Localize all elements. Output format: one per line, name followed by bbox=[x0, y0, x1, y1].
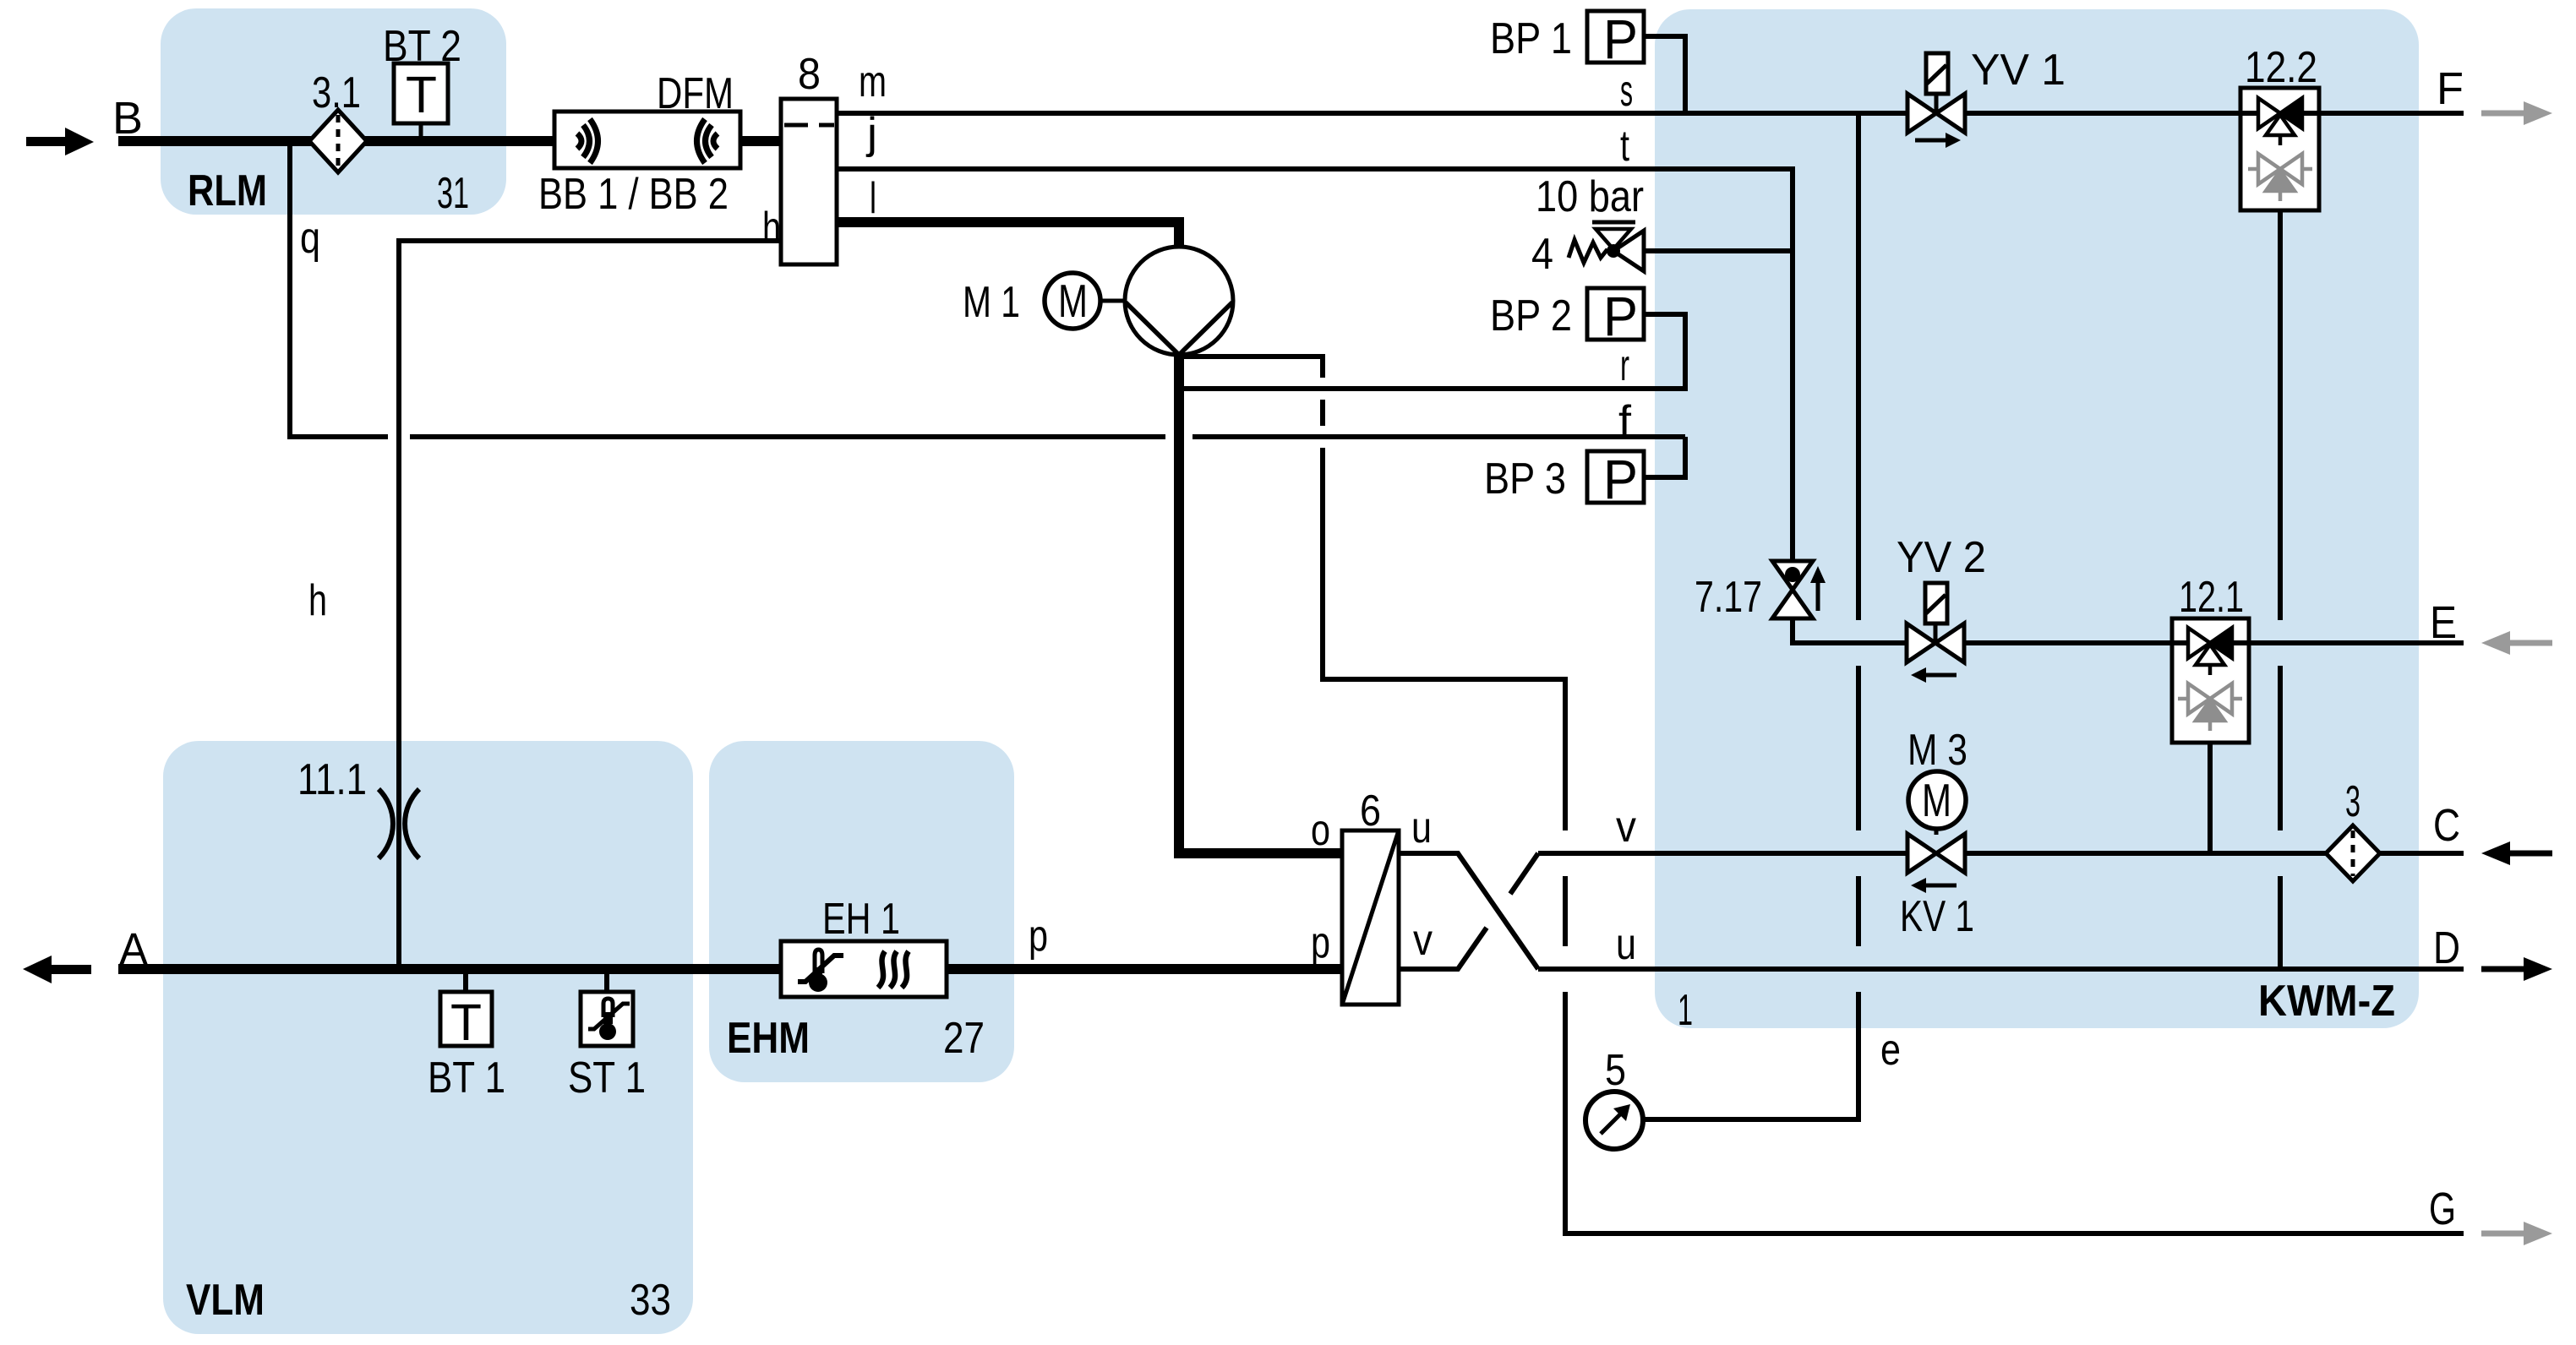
svg-text:EHM: EHM bbox=[727, 1014, 810, 1063]
svg-text:8: 8 bbox=[798, 50, 821, 99]
svg-text:M: M bbox=[1922, 774, 1951, 826]
svg-text:D: D bbox=[2433, 923, 2460, 973]
svg-text:ST 1: ST 1 bbox=[568, 1054, 646, 1103]
svg-text:q: q bbox=[300, 214, 320, 263]
svg-text:KWM-Z: KWM-Z bbox=[2258, 977, 2395, 1026]
svg-text:p: p bbox=[1311, 918, 1330, 967]
svg-text:11.1: 11.1 bbox=[297, 755, 367, 804]
svg-text:P: P bbox=[1603, 8, 1638, 70]
svg-text:m: m bbox=[859, 57, 887, 106]
svg-text:P: P bbox=[1603, 285, 1638, 347]
svg-text:BT 2: BT 2 bbox=[383, 22, 461, 71]
svg-text:v: v bbox=[1413, 916, 1433, 965]
svg-text:F: F bbox=[2437, 63, 2464, 114]
svg-text:BB 1 / BB 2: BB 1 / BB 2 bbox=[538, 170, 729, 219]
svg-text:YV 1: YV 1 bbox=[1971, 46, 2066, 95]
svg-text:BT 1: BT 1 bbox=[428, 1054, 505, 1103]
svg-text:3: 3 bbox=[2345, 777, 2360, 826]
svg-text:KV 1: KV 1 bbox=[1900, 892, 1974, 941]
svg-text:t: t bbox=[1620, 122, 1629, 171]
svg-text:12.2: 12.2 bbox=[2245, 43, 2317, 92]
svg-text:VLM: VLM bbox=[186, 1276, 265, 1325]
svg-text:YV 2: YV 2 bbox=[1897, 533, 1986, 582]
svg-text:E: E bbox=[2430, 597, 2457, 648]
svg-text:M: M bbox=[1058, 275, 1088, 327]
svg-text:27: 27 bbox=[943, 1014, 985, 1063]
svg-text:j: j bbox=[865, 109, 877, 158]
svg-text:33: 33 bbox=[630, 1276, 671, 1325]
svg-text:r: r bbox=[1620, 341, 1629, 390]
svg-text:1: 1 bbox=[1678, 986, 1693, 1035]
svg-text:10 bar: 10 bar bbox=[1536, 172, 1644, 221]
svg-text:BP 2: BP 2 bbox=[1490, 291, 1572, 340]
svg-text:B: B bbox=[112, 93, 143, 144]
svg-text:o: o bbox=[1311, 806, 1330, 855]
svg-text:31: 31 bbox=[437, 169, 469, 218]
svg-text:7.17: 7.17 bbox=[1695, 573, 1762, 622]
svg-text:3.1: 3.1 bbox=[312, 68, 361, 117]
svg-text:M 3: M 3 bbox=[1907, 726, 1967, 775]
svg-text:4: 4 bbox=[1531, 230, 1553, 279]
svg-text:h: h bbox=[762, 204, 781, 253]
svg-text:f: f bbox=[1618, 397, 1632, 446]
svg-text:6: 6 bbox=[1360, 787, 1381, 836]
svg-text:BP 3: BP 3 bbox=[1484, 455, 1566, 504]
svg-text:u: u bbox=[1411, 803, 1432, 852]
svg-text:DFM: DFM bbox=[657, 69, 734, 118]
svg-text:h: h bbox=[308, 576, 327, 625]
svg-text:l: l bbox=[870, 174, 876, 223]
svg-text:p: p bbox=[1029, 912, 1048, 961]
svg-text:s: s bbox=[1620, 67, 1633, 116]
svg-text:5: 5 bbox=[1605, 1046, 1626, 1095]
svg-text:A: A bbox=[119, 924, 148, 975]
svg-text:G: G bbox=[2429, 1184, 2456, 1234]
svg-text:e: e bbox=[1880, 1026, 1901, 1075]
svg-text:C: C bbox=[2433, 800, 2460, 851]
svg-text:EH 1: EH 1 bbox=[822, 895, 900, 944]
svg-text:T: T bbox=[450, 994, 482, 1051]
svg-text:P: P bbox=[1603, 448, 1638, 510]
svg-text:RLM: RLM bbox=[188, 166, 267, 215]
svg-text:BP 1: BP 1 bbox=[1490, 14, 1572, 63]
svg-text:u: u bbox=[1616, 920, 1636, 969]
svg-text:M 1: M 1 bbox=[963, 278, 1020, 327]
svg-text:v: v bbox=[1616, 803, 1636, 852]
svg-text:T: T bbox=[406, 66, 437, 123]
svg-text:12.1: 12.1 bbox=[2179, 573, 2244, 622]
